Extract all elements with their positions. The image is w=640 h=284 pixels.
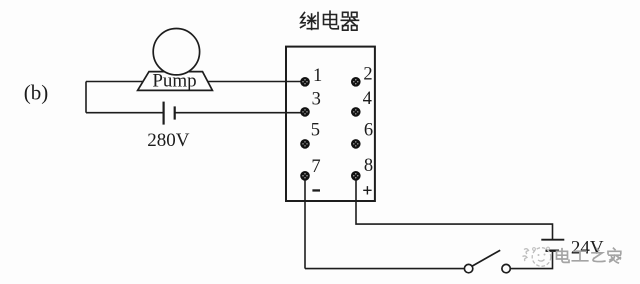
- watermark logo: [523, 247, 551, 266]
- relay pin 7: [300, 171, 310, 181]
- battery B1 280V short plate: [174, 106, 176, 119]
- relay U1 outline box: [286, 47, 375, 201]
- glyph 工 (watermark): [572, 251, 588, 261]
- glyph 电: [324, 11, 339, 29]
- glyph 继: [301, 13, 318, 30]
- svg-text:(b): (b): [24, 81, 49, 105]
- relay title 继电器 (drawn glyphs): [301, 11, 359, 30]
- svg-text:8: 8: [364, 156, 373, 176]
- svg-text:280V: 280V: [147, 130, 190, 151]
- svg-text:2: 2: [363, 65, 372, 85]
- svg-text:1: 1: [313, 66, 322, 86]
- svg-text:3: 3: [312, 89, 321, 109]
- glyph 器: [341, 12, 358, 30]
- wire left vertical: [85, 82, 87, 113]
- relay pin 6: [351, 139, 361, 149]
- relay pin 1: [300, 77, 310, 87]
- relay pin 8: [351, 171, 361, 181]
- svg-text:7: 7: [311, 157, 320, 177]
- relay pin 2: [351, 77, 361, 87]
- relay pin 4: [351, 107, 361, 117]
- watermark text 电工之家 (drawn glyphs): [557, 248, 621, 263]
- switch S1 right contact: [502, 264, 510, 272]
- glyph 之 (watermark): [592, 249, 605, 262]
- battery B2 24V long plate: [541, 239, 564, 241]
- polarity plus at pin 8: [363, 186, 371, 194]
- glyph 家 (watermark): [608, 248, 621, 263]
- wire bottom horizontal to switch: [305, 268, 464, 270]
- wire battery 280V right lead to pin 3: [175, 112, 305, 114]
- polarity minus at pin 7: [312, 189, 320, 191]
- switch S1 left contact: [464, 264, 472, 272]
- wire battery 280V left lead: [86, 112, 164, 114]
- pump base trapezoid: [138, 72, 213, 91]
- relay pin 5: [300, 139, 310, 149]
- svg-text:5: 5: [311, 121, 320, 141]
- svg-text:4: 4: [363, 89, 372, 109]
- relay pin 3: [300, 107, 310, 117]
- svg-text:Pump: Pump: [152, 71, 196, 92]
- battery B2 24V short thick plate: [546, 249, 560, 251]
- switch S1 lever: [472, 250, 500, 266]
- svg-text:6: 6: [364, 121, 373, 141]
- battery B1 280V long plate: [163, 102, 165, 125]
- motor M1 pump circle: [153, 29, 199, 75]
- wire switch to 24V battery: [510, 252, 552, 269]
- glyph 电 (watermark): [557, 249, 570, 263]
- wire pin 7 down: [304, 176, 306, 269]
- wire pump-loop left horizontal to pin 1: [86, 81, 305, 83]
- wire 24V battery up and top horizontal to pin 8: [356, 176, 553, 240]
